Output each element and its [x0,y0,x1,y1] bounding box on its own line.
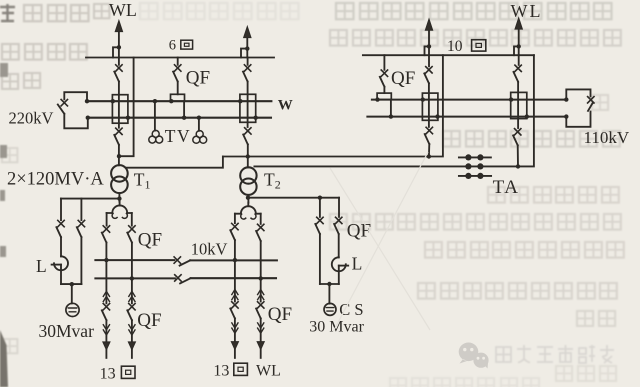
scan left edge marks [0,63,8,257]
svg-text:L: L [36,256,47,276]
disconnect right shunt leg B (X + blade) [338,198,340,217]
current transformer TA row 3 [459,175,491,177]
svg-text:W: W [278,98,293,114]
reactor L right (3/4 circle mirrored) [332,257,346,271]
node coupler on bus W3 [564,97,568,101]
node G2 on bus W4 [435,114,439,118]
wire to reactor L left [60,237,62,256]
wire TV tap left [154,101,156,130]
svg-text:6: 6 [169,37,176,53]
scan shadow bottom left [0,330,8,387]
node F2 on bus W1 [238,99,242,103]
wire T1 bottom stem [118,193,120,202]
wire to capacitor left [71,284,73,303]
wire T2 bottom stem [247,195,249,203]
breaker QF feeder F2 upper (X mark + blade) [247,58,249,65]
node T1 hv junction [117,154,121,158]
wire 110kV transfer bus (top right horizontal) [363,54,534,56]
node line B x 110kV bay G3 [516,164,520,168]
disconnect G2 lower (X mark + blade) [426,127,432,133]
node coupler on bus W4 [564,114,568,118]
svg-text:QF: QF [137,310,161,331]
bay box G1 on bus W3 [377,93,391,100]
svg-text:2×120MV·A: 2×120MV·A [7,169,104,189]
node G3 on bus W4 [525,114,529,118]
svg-text:10kV: 10kV [191,240,228,259]
bay rectangle F1 (bus disconnector unit) [112,95,128,124]
node hook G2 junction [427,44,431,48]
wire T1 node to transfer bus riser [119,58,134,157]
svg-text:WL: WL [109,0,137,20]
wire leg2 to bus S2 and outgoing feeder [131,243,133,304]
bus coupler 110kV bracket [566,89,590,99]
capacitor bank left (circle symbol) [66,303,79,316]
svg-text:220kV: 220kV [9,108,54,127]
wire G3 through bay [517,82,519,128]
svg-text:QF: QF [138,229,162,250]
wire hook link feeder G3 to 110kV transfer bus [514,46,519,55]
node G3 on bus W3 [509,97,513,101]
node F2 on bus W2 [254,116,258,120]
split reactor T1 (arc with curls) [119,202,121,206]
node TV tap right on bus W2 [197,116,201,120]
wire T1 lv node to shunt branch [61,198,120,200]
node T1 lv junction [117,196,121,200]
wire G2 through bay [428,83,430,127]
node F1 on bus W1 [111,99,115,103]
node right shunt mid [327,282,331,286]
bay rectangle G3 [511,92,527,118]
node leg2 on bus S2 [130,276,134,280]
transformer T1 [111,165,128,182]
wire outgoing line WL arrow (110kV feeder G2) [428,30,430,55]
transformer T2 [240,167,256,183]
bus S2 (10kV bus section 2) with section disconnect [95,277,174,279]
breaker QF outgoing O3 (X + blade) [232,302,238,308]
drawout chevrons up feeder O2 [129,291,135,301]
bus coupler 220kV bracket [64,92,87,101]
disconnect left shunt leg A (X + blade) [60,199,62,221]
node leg1 on bus S1 [104,258,108,262]
node leg3 on bus S1 [233,258,237,262]
breaker QF G2 upper (X mark + blade) [428,55,430,66]
wire leg1 to bus S1 and outgoing feeder [105,243,107,304]
svg-text:L: L [352,254,363,274]
node leg4 on bus S2 [259,276,263,280]
drawout chevrons up feeder O1 [103,291,109,301]
bus W1 (220kV main bus 1) [87,100,271,102]
wire G1 box to bus W4 [390,100,392,117]
voltage transformer TV right (trefoil) [196,131,203,138]
wire TV box to bus W2 [183,101,185,118]
disconnect F2 lower (X mark + blade) [245,128,251,134]
wire G2 to line A [428,144,430,157]
wire leg3 to bus S1 and outgoing feeder [234,240,236,301]
bus W4 (110kV main bus 2) [367,116,566,118]
bus W3 (110kV main bus 1) [372,99,566,101]
node T2 lv junction [246,196,250,200]
bay rectangle G2 [422,93,438,120]
breaker QF outgoing O2 (X + blade) [129,304,135,310]
reactor L left (3/4 circle) [54,256,68,270]
disconnect G3 lower (X mark + blade) [515,129,521,135]
breaker QF T1 leg1 (X + blade) [106,213,108,226]
wire F2 to transformer T2 [247,144,249,167]
split reactor T2 (arc with curls) [247,203,249,207]
breaker QF G3 upper (X mark + blade) [518,55,520,65]
wire left shunt rejoin [61,283,81,285]
watermark chat icon [459,343,489,369]
svg-text:C S: C S [339,300,363,319]
svg-text:TV: TV [165,126,191,146]
wire outgoing line WL arrow (110kV feeder G3) [518,29,520,55]
svg-text:10: 10 [447,38,463,55]
svg-text:QF: QF [347,221,371,242]
wire O1 lower with chevrons and cable arrow [105,320,107,358]
node left shunt mid [70,282,74,286]
breaker QF T2 leg3 (X + blade) [234,214,236,223]
wire 220kV transfer bus (top left horizontal) [86,57,274,59]
node G2 on bus W3 [421,97,425,101]
node hook F2 junction [245,46,249,50]
disconnect F1 lower (X mark + blade) [116,128,122,134]
voltage transformer TV left (trefoil) [152,130,159,137]
wire F2 through bay [247,82,249,128]
svg-text:110kV: 110kV [584,128,630,147]
node G1 on bus W3 [375,97,379,101]
svg-text:WL: WL [511,1,543,21]
wire G3 to line B [517,145,519,166]
node TV box on bus W1 [169,99,173,103]
node coupler on bus W2 [86,116,90,120]
node shunt branch tap [318,196,322,200]
wire leg4 to bus S2 and outgoing feeder [260,241,262,302]
svg-text:WL: WL [256,363,281,380]
wire O4 lower with chevrons and cable arrow [260,318,262,358]
breaker QF feeder F1 upper (X mark + blade) [118,58,120,65]
wire line A to 110kV riser [223,55,443,156]
wire outgoing line WL arrow (220kV feeder 2) [246,37,248,57]
wire line B from T2 to 110kV riser [254,55,534,166]
scan corner mark top left [0,4,15,21]
node hook G3 junction [517,44,521,48]
node coupler on bus W1 [85,99,89,103]
wire outgoing line WL arrow (220kV feeder 1) [118,31,120,58]
wire hook link feeder G2 to 110kV transfer bus [425,46,430,55]
svg-text:13: 13 [100,366,116,383]
svg-text:QF: QF [186,68,210,89]
paper crease lines [330,152,430,332]
drawout chevrons up feeder O3 [232,290,238,300]
wire to reactor L right [338,234,340,258]
node F1 on bus W2 [126,116,130,120]
svg-text:30 Mvar: 30 Mvar [309,319,364,336]
breaker QF TV bay (X mark + blade) [177,58,179,65]
drawout chevrons up feeder O4 [258,290,264,300]
svg-text:QF: QF [268,304,292,325]
wire right shunt rejoin [320,283,339,285]
svg-text:TA: TA [493,177,520,198]
capacitor bank CS right (circle symbol) [324,303,336,315]
node hook F1 junction [117,45,121,49]
breaker QF 110kV feeder G1 (X mark + blade) [383,55,385,70]
wire hook link feeder F1 to transfer bus [113,47,119,57]
wire O2 lower with chevrons and cable arrow [131,320,133,358]
wire F1 to transformer T1 [118,145,120,166]
breaker QF outgoing O4 (X + blade) [258,302,264,308]
wire hook link feeder F2 to transfer bus [241,49,247,58]
wire to capacitor CS right [328,284,330,304]
current transformer TA row 1 [459,156,491,158]
breaker QF T2 leg4 (X + blade) [260,214,262,224]
node G1 on bus W4 [389,114,393,118]
bay rectangle F2 [240,94,256,122]
svg-text:QF: QF [391,68,415,89]
current transformer TA row 2 (on line B) [465,163,471,169]
node line A x 110kV bay G2 [427,154,431,158]
wire T2 lv node to shunt branch right [248,197,339,199]
breaker QF outgoing O1 (X + blade) [103,304,109,310]
bus S1 (10kV bus section 1) with section disconnect [95,259,174,261]
node TV on bus W2 [182,116,186,120]
svg-text:30Mvar: 30Mvar [39,321,95,341]
disconnect right shunt leg A (X + blade) [319,198,321,217]
disconnect left shunt leg B (X + blade) [80,199,82,221]
bay box TV on bus W1 [171,94,185,101]
wire TV tap right [198,118,200,131]
bus W2 (220kV main bus 2) [88,117,271,119]
watermark text (power engineering technology) [496,345,614,363]
svg-text:13: 13 [213,363,229,380]
breaker QF T1 leg2 (X + blade) [131,213,133,226]
wire TV bay drop [177,82,179,95]
wire O3 lower with chevrons and cable arrow [234,318,236,358]
wire F1 through bay [118,82,120,128]
node TV tap left on bus W1 [153,99,157,103]
node line A x T2 feeder [246,154,250,158]
wire T1 medium-voltage link (step to line A) [127,157,223,168]
